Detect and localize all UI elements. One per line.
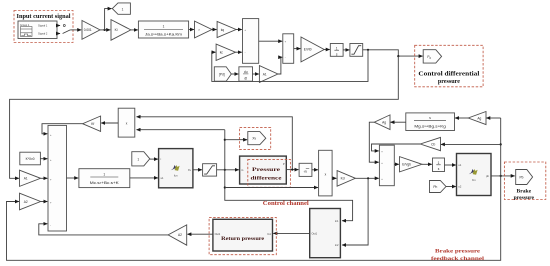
svg-text:Kd: Kd <box>341 177 345 181</box>
wire subsystem out to Return pressure <box>273 232 309 234</box>
wire bus vertical and to subsystem in1 <box>225 130 353 221</box>
svg-text:fcn: fcn <box>472 178 476 182</box>
wire A1 up to sum2 <box>278 57 282 74</box>
svg-text:E/Vt0: E/Vt0 <box>304 48 312 52</box>
svg-text:Ag: Ag <box>477 116 481 120</box>
wire: signal2 to switch <box>57 33 60 35</box>
gain Cb (points left) <box>420 137 440 150</box>
wire sqrt to product2 <box>312 169 318 171</box>
wire TF2 to fcn u1 <box>130 177 158 179</box>
svg-text:A2: A2 <box>178 233 182 237</box>
svg-text:Control differential: Control differential <box>418 72 479 78</box>
dashed box around Return pressure <box>209 217 276 254</box>
svg-text:Out1: Out1 <box>312 232 318 236</box>
wire integrator to saturation <box>343 49 349 51</box>
svg-text:Mg.s²+Bg.s+Kg: Mg.s²+Bg.s+Kg <box>414 125 446 129</box>
wire pb feedback: riser, bottom run, up to A2 left <box>7 118 502 260</box>
svg-text:Xv: Xv <box>252 137 256 141</box>
from tag Ph <box>430 181 447 193</box>
gain Kf (points left) <box>83 116 101 131</box>
product block x (upper) <box>118 108 135 137</box>
sum1 <box>243 19 259 64</box>
from tag [Pd] <box>214 67 231 81</box>
svg-text:Cb: Cb <box>431 142 435 146</box>
wire r to kq <box>212 29 217 31</box>
svg-text:Ja.s²+Ba.s+Ka.Km: Ja.s²+Ba.s+Ka.Km <box>145 33 182 37</box>
svg-text:P: P <box>283 162 285 166</box>
goto tag P0 <box>423 50 441 63</box>
wire Kf to sum3 <box>42 124 83 134</box>
svg-text:A1: A1 <box>263 72 267 76</box>
wire Ph to fcn2 u2 <box>446 186 456 188</box>
gain 0.001 <box>82 21 100 40</box>
wire fcn1 to saturation2 <box>193 169 202 171</box>
sqrt block <box>299 163 312 176</box>
svg-text:Brake pressure: Brake pressure <box>435 248 481 254</box>
integrator2 1/s <box>433 158 445 172</box>
svg-text:Signal 1: Signal 1 <box>38 24 48 28</box>
product2 x <box>319 150 333 196</box>
wire tag1 to fcn i <box>150 158 158 160</box>
svg-text:Input current signal: Input current signal <box>17 13 71 20</box>
transfer fcn s/(Mg.s2+Bg.s+Kg) <box>406 113 455 131</box>
svg-text:1: 1 <box>336 46 338 50</box>
svg-text:in1: in1 <box>335 219 339 223</box>
svg-text:pressure: pressure <box>514 195 535 201</box>
svg-text:K*Xv0: K*Xv0 <box>26 157 35 161</box>
gain Kd <box>337 171 355 187</box>
svg-text:Ph: Ph <box>433 185 437 189</box>
svg-text:1: 1 <box>163 25 165 29</box>
wire K*Xv0 to sum3 <box>40 158 47 160</box>
svg-text:Ag: Ag <box>382 121 386 125</box>
wire A2 to sum3 <box>41 201 48 203</box>
svg-text:pressure: pressure <box>438 79 460 85</box>
wire Pd to du/dt <box>231 73 238 75</box>
wire pb junction to Ag right input (vertical riser) <box>486 117 500 119</box>
MATLAB function block fcn2 <box>457 154 492 196</box>
wire TF3 to Ag left <box>391 121 406 123</box>
svg-text:1: 1 <box>438 161 440 165</box>
wire Kd to sum4 with junction <box>355 177 378 179</box>
wire Ag right to TF3 <box>455 117 468 119</box>
svg-text:0.001: 0.001 <box>84 28 92 32</box>
constant K*Xv0 <box>20 152 41 165</box>
wire feedback to A1 left (long) <box>10 56 399 178</box>
wire sat2 into bus and Pressure difference <box>217 169 239 171</box>
wire sum2 to E/Vt0 <box>294 48 301 50</box>
svg-text:1: 1 <box>137 157 139 161</box>
svg-text:1: 1 <box>122 7 124 11</box>
sum2 <box>283 34 294 64</box>
gain kq <box>217 21 236 37</box>
wire junction to Cb input <box>441 143 501 145</box>
wire A1 to sum3 <box>41 177 48 179</box>
derivative du/dt <box>239 67 253 81</box>
label Brake pressure feedback channel <box>431 248 485 261</box>
MATLAB function block fcn1 <box>159 149 193 188</box>
wire Ag left down to sum4 <box>369 122 378 162</box>
wire Ki to TF1 <box>131 29 138 31</box>
svg-text:kc: kc <box>220 51 224 55</box>
goto tag Pb <box>516 170 533 185</box>
svg-text:Pressure: Pressure <box>252 167 281 173</box>
transfer fcn 1/(Mc.s2+Bc.s+K) <box>79 169 130 188</box>
svg-text:dt: dt <box>244 77 247 81</box>
svg-text:Ki: Ki <box>115 28 118 32</box>
wire sum3 to TF2 <box>67 177 79 179</box>
wire Pdiff to sqrt with junction <box>286 169 298 171</box>
wire E/Vt0 to integrator <box>324 49 330 51</box>
gain A2 (left) <box>20 193 41 210</box>
wire integrator2 to fcn2 u1 <box>445 164 456 166</box>
svg-text:Out1: Out1 <box>215 232 221 236</box>
gain A2 (bottom, points left) <box>168 225 187 245</box>
wire kq to sum1 <box>236 29 242 31</box>
svg-text:fcn: fcn <box>174 174 178 178</box>
wire fcn2 to Pb with junction <box>491 175 515 177</box>
wire du/dt to A1 <box>253 73 259 75</box>
gain kc <box>216 44 235 60</box>
svg-text:Pb: Pb <box>520 175 524 179</box>
wire kc to sum1 <box>236 51 242 53</box>
wire Return pressure to A2 bottom <box>187 233 213 235</box>
from tag 1 (current) <box>132 152 150 166</box>
svg-text:-: - <box>285 56 286 59</box>
brake chamber subsystem (bottom right) <box>310 209 341 258</box>
subsystem Return pressure <box>213 219 273 251</box>
wire bus to product2 lower input <box>225 187 318 189</box>
svg-text:Signal 2: Signal 2 <box>38 32 48 36</box>
dashed box: Control differential pressure <box>415 45 483 87</box>
wire Cb to sum4 top input <box>372 144 421 151</box>
svg-text:feedback channel: feedback channel <box>431 256 485 262</box>
gain Ag (left, points left) <box>374 115 390 130</box>
gain E/Vt0 <box>301 37 324 62</box>
wire spool bus to product in2 <box>137 129 225 131</box>
gain Ki <box>111 20 131 41</box>
svg-text:[Pd]: [Pd] <box>219 72 225 76</box>
svg-text:-: - <box>50 224 51 227</box>
svg-text:Kf: Kf <box>91 122 94 126</box>
dashed box around Xv <box>240 128 271 150</box>
svg-text:A2: A2 <box>24 200 28 204</box>
goto tag 1 (top) <box>112 3 130 14</box>
svg-text:Return pressure: Return pressure <box>221 236 265 242</box>
svg-text:du: du <box>244 70 248 74</box>
svg-text:Control channel: Control channel <box>263 201 309 207</box>
svg-text:E/Vgb: E/Vgb <box>402 163 411 167</box>
wire A2 bottom to sum3 lower input <box>39 224 168 235</box>
gain E/Vgb <box>400 157 423 172</box>
goto tag Xv <box>248 132 266 145</box>
wire feedback to kc <box>212 50 368 82</box>
wire sum1 to sum2 <box>259 40 283 42</box>
dashed box: Brake pressure <box>504 162 545 201</box>
svg-text:Brake: Brake <box>516 188 531 194</box>
integrator 1/s <box>330 44 343 57</box>
junction nodes on bus <box>224 139 226 189</box>
svg-text:kq: kq <box>221 28 225 32</box>
svg-text:difference: difference <box>251 176 283 182</box>
gain A1 (top) <box>259 66 278 83</box>
svg-text:in2: in2 <box>335 243 339 247</box>
wire product2 to Kd <box>332 177 336 179</box>
svg-text:A1: A1 <box>24 177 28 181</box>
dashed box on Pressure difference <box>248 159 291 187</box>
manual switch <box>63 25 82 34</box>
saturation 2 <box>203 164 217 176</box>
wire E/Vgb to integrator2 <box>422 163 432 165</box>
wire Kd junction down to subsystem in2 <box>342 178 368 245</box>
wire Pdiff output up to product in1 <box>137 117 293 170</box>
wire: 0.001 to Ki with junction <box>100 9 112 31</box>
wire bus to Xv tag <box>225 139 247 141</box>
svg-text:1: 1 <box>103 172 105 176</box>
svg-text:-: - <box>245 52 246 55</box>
saturation 1 <box>350 44 363 57</box>
signal builder block Group 1 <box>18 21 57 39</box>
gain A1 (left) <box>20 170 41 186</box>
dashed box: Input current signal <box>14 11 73 43</box>
gain Ag (right, points left) <box>468 112 486 125</box>
wire TF1 to r <box>189 29 194 31</box>
wire: signal1 to switch <box>57 25 60 27</box>
svg-text:In1: In1 <box>267 232 271 236</box>
svg-text:√u: √u <box>304 169 308 173</box>
wire saturation to P0 with corners <box>363 49 423 58</box>
wire sum4 to E/Vgb <box>394 163 399 165</box>
wire product to Kf <box>101 122 118 124</box>
sum4 <box>379 145 394 186</box>
sum3 (tall) <box>48 125 67 231</box>
subsystem Pressure difference <box>240 156 287 184</box>
transfer fcn 1/(Ja.s2+Ba.s+Ka.Km) <box>138 21 188 38</box>
gain r <box>195 21 212 38</box>
svg-text:Mc.s²+Bc.s+K: Mc.s²+Bc.s+K <box>90 181 120 185</box>
